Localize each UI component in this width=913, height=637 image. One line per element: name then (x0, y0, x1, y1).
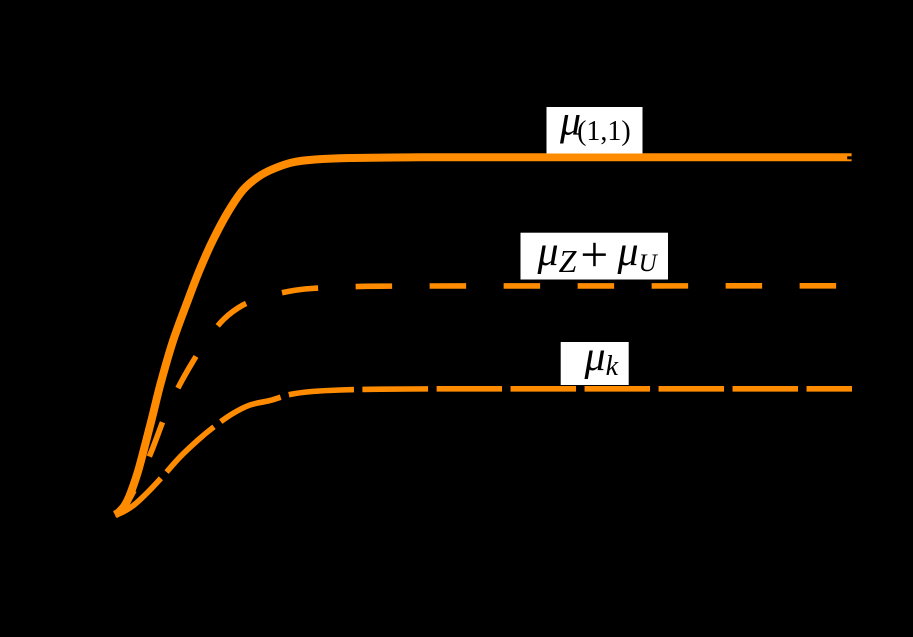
label box mu_k (561, 334, 629, 385)
curve dashed mu_Z + mu_U (115, 286, 838, 515)
notch at end of solid curve (847, 156, 852, 159)
curve solid mu_(1,1) (115, 157, 852, 514)
label box mu_(1,1) (547, 99, 643, 154)
label box mu_Z + mu_U (521, 229, 669, 280)
svg-text:μk: μk (584, 334, 619, 382)
curve long-dashed mu_k (115, 389, 852, 515)
svg-text:μ(1,1): μ(1,1) (559, 99, 631, 148)
